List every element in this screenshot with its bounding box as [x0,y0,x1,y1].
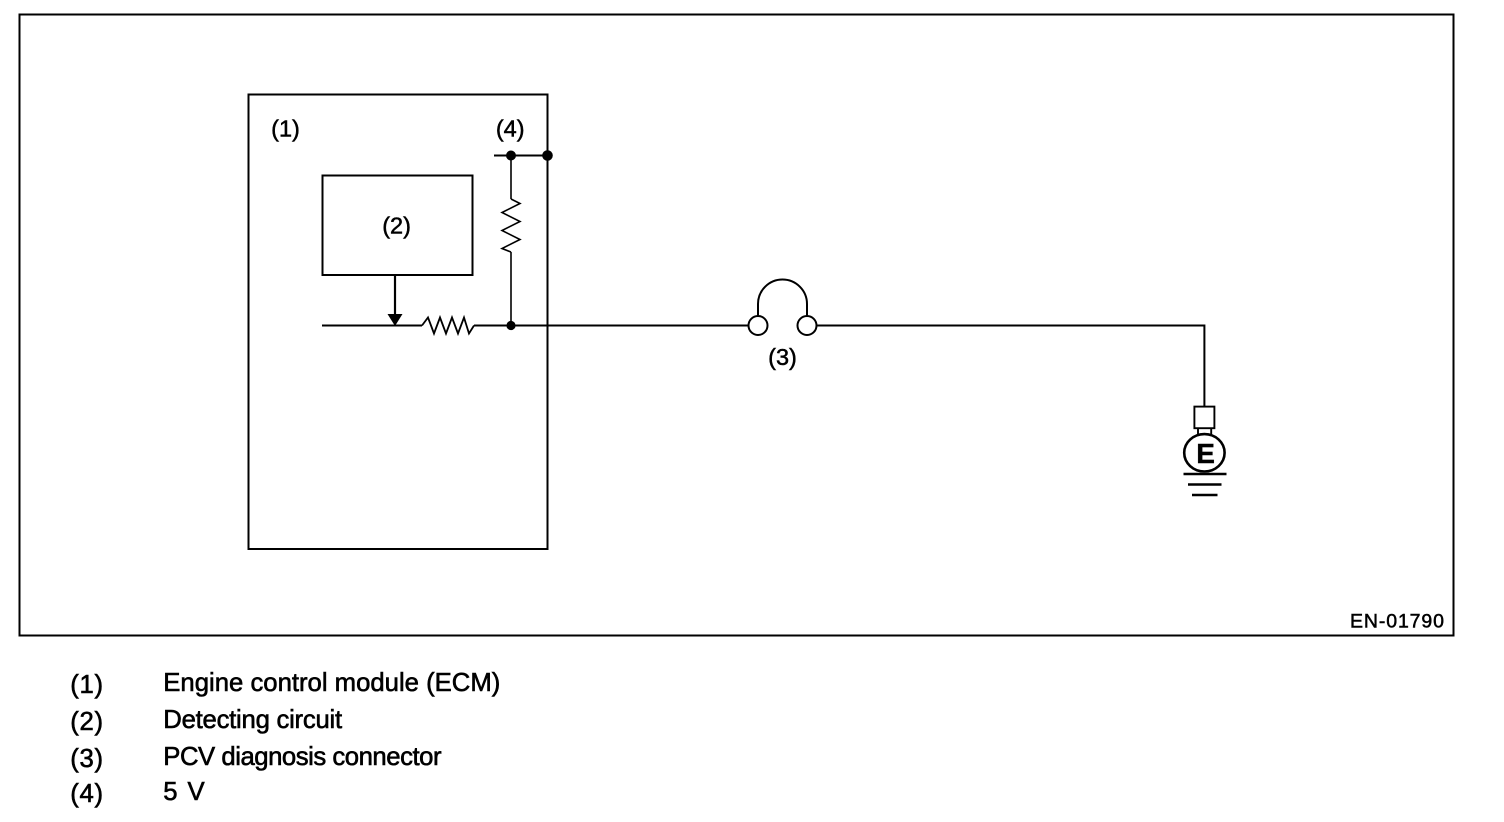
svg-text:E: E [1196,438,1215,469]
svg-text:(3): (3) [768,344,797,370]
svg-text:5 V: 5 V [163,778,205,806]
svg-text:(2): (2) [382,213,411,239]
svg-text:(4): (4) [70,780,103,808]
svg-text:(1): (1) [70,671,103,699]
svg-text:(3): (3) [70,745,103,773]
svg-text:(1): (1) [271,116,300,142]
svg-text:(4): (4) [496,116,525,142]
svg-text:Engine control module (ECM): Engine control module (ECM) [163,669,500,697]
svg-text:EN-01790: EN-01790 [1350,611,1444,633]
svg-text:Detecting circuit: Detecting circuit [163,706,342,734]
svg-text:PCV diagnosis connector: PCV diagnosis connector [163,743,442,771]
svg-text:(2): (2) [70,708,103,736]
